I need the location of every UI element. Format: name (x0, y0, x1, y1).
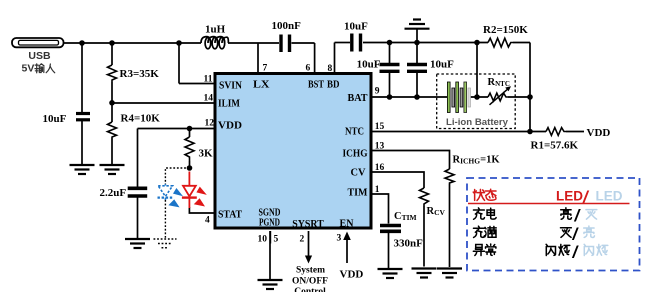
svg-text:BST: BST (308, 80, 324, 91)
svg-text:System: System (296, 266, 325, 276)
svg-text:10uF: 10uF (344, 21, 368, 33)
svg-text:RICHG=1K: RICHG=1K (453, 155, 501, 166)
svg-text:10uF: 10uF (357, 59, 381, 71)
svg-text:LED: LED (596, 189, 623, 204)
svg-text:LX: LX (253, 80, 270, 91)
svg-text:STAT: STAT (218, 210, 242, 221)
svg-text:3K: 3K (199, 148, 214, 160)
svg-text:R3=35K: R3=35K (120, 68, 160, 80)
svg-text:12: 12 (205, 119, 215, 129)
svg-text:VDD: VDD (587, 127, 611, 139)
svg-text:VDD: VDD (340, 269, 364, 281)
svg-text:TIM: TIM (348, 188, 368, 199)
svg-text:SVIN: SVIN (219, 81, 242, 92)
svg-text:SYSRT: SYSRT (292, 219, 324, 230)
svg-text:BD: BD (327, 80, 340, 91)
svg-text:EN: EN (340, 219, 355, 230)
svg-text:6: 6 (306, 64, 311, 74)
svg-text:BAT: BAT (348, 93, 368, 104)
svg-text:CV: CV (351, 168, 366, 179)
svg-text:4: 4 (205, 216, 210, 226)
svg-text:LED: LED (556, 189, 583, 204)
svg-text:3: 3 (337, 234, 342, 244)
svg-text:7: 7 (263, 64, 268, 74)
svg-text:RCV: RCV (427, 206, 446, 217)
svg-text:NTC: NTC (345, 127, 364, 138)
svg-text:13: 13 (375, 142, 385, 152)
svg-text:VDD: VDD (218, 121, 242, 132)
svg-text:5: 5 (274, 235, 279, 245)
svg-text:ON/OFF: ON/OFF (292, 277, 328, 287)
svg-text:R4=10K: R4=10K (121, 113, 161, 125)
svg-text:15: 15 (375, 122, 385, 132)
svg-text:R1=57.6K: R1=57.6K (531, 140, 579, 152)
svg-text:USB: USB (28, 50, 51, 62)
svg-text:11: 11 (204, 75, 213, 85)
svg-text:ICHG: ICHG (343, 149, 368, 160)
svg-text:2.2uF: 2.2uF (100, 187, 127, 199)
svg-text:100nF: 100nF (272, 20, 302, 32)
svg-text:14: 14 (204, 94, 214, 104)
svg-text:330nF: 330nF (394, 238, 424, 250)
svg-text:1uH: 1uH (205, 24, 226, 36)
svg-text:5V: 5V (22, 63, 35, 75)
svg-text:ILIM: ILIM (218, 99, 240, 110)
svg-text:2: 2 (300, 235, 305, 245)
svg-text:16: 16 (375, 163, 385, 173)
svg-text:R2=150K: R2=150K (483, 24, 528, 36)
svg-text:10: 10 (258, 235, 268, 245)
svg-text:1: 1 (375, 185, 380, 195)
svg-text:Control: Control (294, 287, 326, 292)
svg-text:10uF: 10uF (430, 59, 454, 71)
svg-text:8: 8 (328, 64, 333, 74)
svg-text:PGND: PGND (259, 218, 280, 229)
svg-text:10uF: 10uF (43, 113, 67, 125)
svg-text:Li-ion Battery: Li-ion Battery (446, 117, 509, 128)
svg-text:CTIM: CTIM (394, 211, 417, 222)
svg-text:9: 9 (375, 87, 380, 97)
